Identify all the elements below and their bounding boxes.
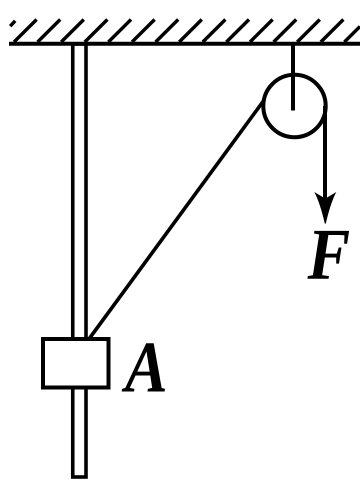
pulley wheel bbox=[263, 75, 325, 137]
svg-text:A: A bbox=[121, 326, 167, 407]
block A bbox=[43, 339, 109, 388]
rope (vertical, pulled down) bbox=[323, 106, 327, 203]
ceiling line bbox=[9, 42, 360, 46]
rod (vertical pole from ceiling) bbox=[73, 44, 86, 477]
rope (diagonal from block A to pulley) bbox=[89, 98, 266, 340]
force arrowhead F bbox=[316, 193, 336, 223]
pulley hanger/axle line bbox=[291, 44, 295, 111]
svg-text:F: F bbox=[307, 213, 351, 294]
ceiling hatching bbox=[10, 20, 360, 43]
